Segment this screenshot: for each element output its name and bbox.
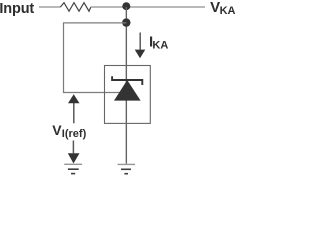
svg-text:KA: KA — [220, 5, 236, 17]
label IKA — [149, 33, 168, 51]
wire ref feedback top horizontal — [63, 22, 126, 24]
label VIref — [52, 122, 86, 140]
wire cathode vertical (VKA node down through device to ground) — [125, 7, 127, 164]
wire input to resistor — [39, 6, 60, 8]
wire ref feedback bottom horizontal to REF pin — [63, 92, 120, 94]
TL431 cathode bar with zener ticks — [112, 76, 142, 85]
voltage arrow VIref up — [68, 94, 80, 123]
ground left — [64, 164, 82, 173]
node VKA label — [210, 0, 235, 17]
resistor R — [60, 3, 91, 12]
junction dot ref tie — [122, 18, 130, 26]
ground right — [118, 164, 136, 173]
current arrow IKA — [135, 33, 146, 59]
svg-text:KA: KA — [152, 39, 168, 51]
svg-text:Input: Input — [0, 1, 34, 17]
voltage arrow VIref down — [68, 141, 80, 164]
svg-text:V: V — [52, 122, 62, 138]
TL431 anode triangle — [114, 80, 141, 101]
svg-text:I(ref): I(ref) — [62, 128, 87, 140]
junction dot cathode node — [122, 2, 130, 10]
device box U1 TL431 outline — [105, 66, 151, 124]
wire resistor to VKA — [91, 6, 205, 8]
wire ref feedback left vertical — [63, 23, 65, 93]
